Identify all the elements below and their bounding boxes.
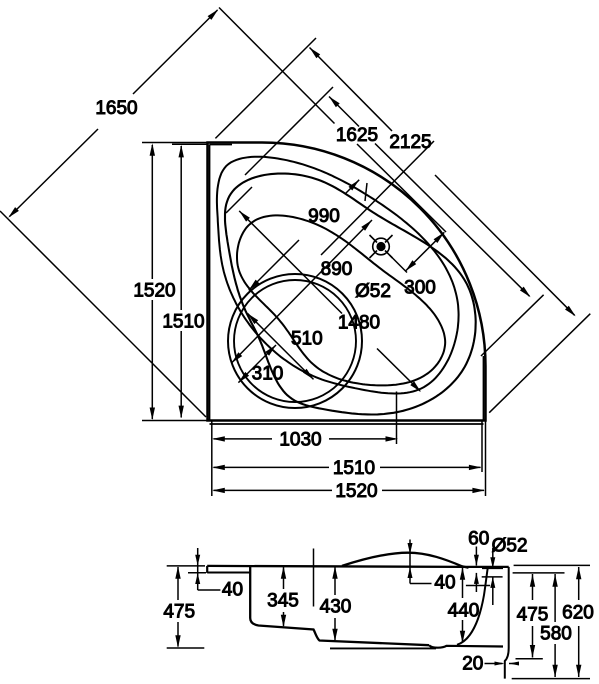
dim line 1520 left upper bbox=[151, 145, 153, 279]
arrow 580 bottom bbox=[552, 665, 557, 678]
dim line 2125 upper part bbox=[310, 48, 393, 132]
dim line 345 lower bbox=[283, 612, 285, 626]
arrow 1520 bottom left bbox=[212, 488, 225, 493]
svg-text:Ø52: Ø52 bbox=[355, 281, 391, 302]
svg-text:475: 475 bbox=[163, 602, 195, 623]
drain pipe top bbox=[482, 567, 503, 569]
dim line 1480 lower part bbox=[377, 349, 420, 392]
ext stub drain upper bbox=[492, 548, 494, 568]
arrow 20 left bbox=[509, 662, 519, 666]
svg-text:990: 990 bbox=[308, 206, 340, 227]
ext line right top rim bbox=[514, 564, 590, 566]
svg-text:1510: 1510 bbox=[333, 458, 375, 479]
ext line 1625 SE bbox=[481, 295, 544, 356]
svg-text:1650: 1650 bbox=[95, 98, 137, 119]
drain fitting line bbox=[466, 585, 490, 587]
arrow 40 right down bbox=[408, 543, 413, 554]
dim line 475 right upper bbox=[532, 574, 534, 600]
leader 40 left horizontal bbox=[198, 589, 221, 591]
side rim deck behind hump bbox=[207, 566, 462, 567]
side bottom outer line bbox=[330, 647, 436, 649]
drain SE spoke extension line bbox=[390, 255, 408, 273]
arrow 310 SW bbox=[238, 372, 249, 383]
side skirt right edge bbox=[505, 567, 509, 679]
dim line 1030 right part bbox=[329, 438, 395, 440]
leader 40 right horizontal bbox=[410, 583, 432, 585]
dim line 580 upper bbox=[554, 574, 556, 622]
tub inner edge top bbox=[210, 144, 233, 146]
svg-text:440: 440 bbox=[448, 601, 480, 622]
dim line 430 lower bbox=[334, 618, 336, 640]
dim line 1480 upper part bbox=[239, 211, 342, 314]
ext line step separator bbox=[313, 549, 315, 607]
leader 40 left vertical bbox=[197, 548, 199, 590]
arrow 1520 bottom bbox=[150, 408, 155, 421]
svg-text:475: 475 bbox=[517, 605, 549, 626]
ext line 475 left top bbox=[167, 565, 205, 567]
arrow 40 right up bbox=[408, 567, 413, 578]
arrow 1510 bottom right bbox=[469, 465, 482, 470]
svg-text:430: 430 bbox=[320, 597, 352, 618]
dim line 1650 lower part bbox=[10, 129, 99, 217]
dim line 620 lower bbox=[578, 626, 580, 677]
dim line 1625 upper part bbox=[329, 97, 359, 127]
svg-text:Ø52: Ø52 bbox=[492, 536, 528, 557]
arrow 510 SE bbox=[303, 369, 314, 380]
arrow 20 right bbox=[495, 662, 505, 666]
drain cross spoke bbox=[370, 235, 378, 243]
ext line 2125 NW bbox=[215, 38, 316, 138]
ext line 475 left bottom bbox=[167, 647, 205, 649]
dim line 1520 left lower bbox=[151, 300, 153, 419]
arrow 990 NE bbox=[349, 180, 360, 191]
short ext stub near 990 NE arrow bbox=[365, 183, 367, 201]
ext line 2125 SE bbox=[489, 314, 590, 413]
dim line 1520 bottom left part bbox=[214, 489, 333, 491]
arrow 310 NE bbox=[265, 345, 276, 356]
svg-text:40: 40 bbox=[434, 572, 455, 593]
leader 20 bbox=[485, 663, 503, 665]
seat outer circle bbox=[228, 274, 362, 408]
svg-text:510: 510 bbox=[291, 329, 323, 350]
dim line 620 upper bbox=[578, 567, 580, 600]
ext line right waste level bbox=[513, 572, 565, 574]
arrow 1480 SE bbox=[410, 381, 421, 392]
seat inner circle bbox=[234, 280, 356, 402]
arrow 1510 top bbox=[179, 145, 184, 158]
leader 40 right vertical bbox=[409, 540, 411, 584]
arrow 1650 NE bbox=[208, 9, 219, 20]
svg-text:890: 890 bbox=[321, 259, 353, 280]
dim line 1510 bottom left part bbox=[214, 466, 330, 468]
dim line 2125 main part bbox=[435, 175, 575, 315]
ext line top-left 1520 bbox=[142, 142, 208, 144]
svg-text:345: 345 bbox=[267, 591, 299, 612]
ext line 1510 right bbox=[481, 421, 483, 473]
dim line 990 lower part bbox=[249, 240, 299, 290]
svg-text:1625: 1625 bbox=[336, 125, 378, 146]
dim line 345 upper bbox=[283, 567, 285, 589]
tub inner edge left bbox=[209, 145, 211, 421]
arrow 60 down bbox=[474, 555, 479, 566]
arrow 990 SW bbox=[249, 280, 260, 291]
side rim lip bottom bbox=[207, 572, 249, 574]
ext line bottom-left vertical bbox=[211, 421, 213, 497]
arrow 475 right bottom bbox=[530, 645, 535, 658]
arrow 1030 left bbox=[212, 436, 225, 441]
dim line 510 bbox=[248, 313, 314, 379]
tub inner edge right bbox=[483, 356, 485, 420]
arrow 475 left top bbox=[175, 566, 180, 579]
svg-text:310: 310 bbox=[252, 364, 284, 385]
arrow drain up bbox=[490, 577, 495, 588]
dim line 1625 main part bbox=[375, 144, 530, 297]
dim line 475 right lower bbox=[532, 626, 534, 658]
side backrest hump bbox=[342, 553, 469, 568]
drain pipe bottom bbox=[482, 576, 503, 578]
svg-text:1480: 1480 bbox=[338, 313, 380, 334]
well floor outline bbox=[237, 215, 445, 385]
arrow 300 NE bbox=[434, 232, 445, 243]
arrow 1625 SE bbox=[520, 287, 531, 298]
svg-text:580: 580 bbox=[540, 624, 572, 645]
arrow 890 NE bbox=[361, 220, 372, 231]
svg-text:20: 20 bbox=[462, 654, 483, 675]
svg-text:300: 300 bbox=[404, 278, 436, 299]
long diagonal line NE-SW bbox=[321, 141, 434, 255]
side left edge bbox=[206, 566, 208, 573]
arrow 475 right top bbox=[530, 574, 535, 587]
dim line 1650 upper part bbox=[133, 10, 218, 94]
arrow 1520 bottom right bbox=[472, 488, 485, 493]
arrow 1650 SW bbox=[8, 207, 19, 218]
dim line 300 bbox=[406, 232, 445, 271]
ext line right 475 bottom bbox=[516, 658, 543, 660]
arrow 60 up bbox=[474, 573, 479, 584]
arrow 2125 SE bbox=[565, 306, 576, 317]
arrow 40 left down bbox=[195, 555, 200, 566]
arrow 430 bottom bbox=[332, 629, 337, 642]
svg-text:1520: 1520 bbox=[133, 281, 175, 302]
dim line 440 upper bbox=[462, 568, 464, 598]
arrow 1030 right bbox=[386, 436, 399, 441]
svg-text:620: 620 bbox=[562, 603, 594, 624]
dim line 990 upper part bbox=[345, 180, 359, 194]
ext line well lowest point bbox=[396, 392, 398, 445]
arrow 440 bottom bbox=[460, 631, 465, 644]
ext line 1625 NW bbox=[245, 87, 333, 175]
svg-text:1030: 1030 bbox=[279, 429, 321, 450]
arrow 890 SW bbox=[232, 352, 243, 363]
stub 20 right bbox=[509, 663, 519, 665]
dim line 475 left lower bbox=[177, 622, 179, 647]
drain cross spoke bbox=[385, 251, 393, 259]
ext line right floor bbox=[512, 678, 590, 680]
arrow 475 left bottom bbox=[175, 635, 180, 648]
side rim deck right bbox=[462, 566, 509, 568]
dim line 310 bbox=[238, 345, 276, 383]
ext stub 60 lower bbox=[475, 573, 477, 592]
arrow 40 left up bbox=[195, 573, 200, 584]
ext line 1520 right bbox=[485, 421, 487, 497]
arrow 1520 top bbox=[150, 143, 155, 156]
arrow 1480 NW bbox=[239, 211, 250, 222]
svg-text:1510: 1510 bbox=[162, 312, 204, 333]
arrow 1625 NW bbox=[329, 97, 340, 108]
side inner wall right bbox=[457, 568, 488, 645]
ext line bottom-left bbox=[142, 420, 208, 422]
arrow 510 NW bbox=[248, 313, 259, 324]
arrow 1510 bottom bbox=[179, 406, 184, 419]
ext line 1480 NW tangent bbox=[226, 187, 252, 213]
svg-text:1520: 1520 bbox=[335, 481, 377, 502]
ext line 1650 SW to corner bbox=[0, 211, 206, 417]
drain cross spoke bbox=[385, 235, 393, 243]
dim line 1520 bottom right part bbox=[382, 489, 484, 491]
arrow 2125 NW bbox=[310, 48, 321, 59]
dim line 475 left upper bbox=[177, 567, 179, 600]
dim line 890 bbox=[232, 220, 373, 363]
tub skirt lower edge bbox=[210, 423, 484, 425]
arrow 300 SW bbox=[406, 260, 417, 271]
svg-text:40: 40 bbox=[222, 580, 243, 601]
ext stub drain lower bbox=[492, 577, 494, 605]
drain outer circle bbox=[373, 238, 390, 255]
ext stub 60 upper bbox=[475, 547, 477, 566]
arrow 580 top bbox=[552, 574, 557, 587]
dim line 1510 left upper bbox=[180, 146, 182, 310]
side bottom to skirt bbox=[429, 645, 503, 648]
dim line 440 lower bbox=[462, 620, 464, 642]
ext line top-left 1510 bbox=[172, 143, 208, 145]
bathing well outer rim bbox=[225, 174, 476, 415]
ext line chamfer over rim bbox=[357, 144, 446, 232]
side well profile left-bottom bbox=[250, 566, 429, 645]
drain cross spoke bbox=[370, 251, 378, 259]
dim line 1510 left lower bbox=[180, 331, 182, 418]
arrow 620 bottom bbox=[576, 665, 581, 678]
drain center bbox=[377, 243, 385, 251]
dim line 1030 left part bbox=[214, 438, 273, 440]
arrow 620 top bbox=[576, 567, 581, 580]
dim line 430 upper bbox=[334, 567, 336, 595]
dim line 1510 bottom right part bbox=[380, 466, 481, 468]
arrow 345 top bbox=[281, 566, 286, 579]
tub outer outline (plan) bbox=[208, 143, 486, 421]
arrow 345 bottom bbox=[281, 615, 286, 628]
arrow 430 top bbox=[332, 566, 337, 579]
arrow 440 top bbox=[460, 567, 465, 580]
ext line 1650 NE / chamfer extension bbox=[219, 8, 335, 124]
svg-text:60: 60 bbox=[468, 529, 489, 550]
arrow drain down bbox=[490, 557, 495, 568]
arrow 1510 bottom left bbox=[212, 465, 225, 470]
ext stub 40 lower-left bbox=[188, 572, 206, 574]
dim line 580 lower bbox=[554, 644, 556, 677]
rim inner edge bbox=[217, 157, 459, 394]
